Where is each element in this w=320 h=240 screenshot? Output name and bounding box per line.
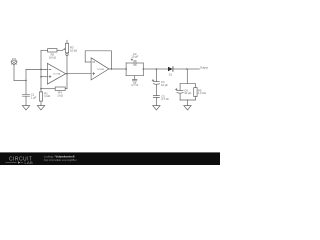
- input terminal IN1: [11, 57, 17, 65]
- capacitor C5: [153, 94, 169, 101]
- wire C4 column: [155, 69, 157, 82]
- capacitor C1: [23, 93, 37, 100]
- node output junction: [186, 68, 188, 70]
- wire output node down: [186, 69, 188, 84]
- wire C4 to C5: [155, 84, 157, 95]
- node buffer output: [111, 68, 113, 70]
- svg-text:TL072B: TL072B: [97, 69, 105, 71]
- ground (box2): [184, 106, 191, 110]
- diode D1: [168, 67, 173, 77]
- svg-text:IN1: IN1: [12, 57, 17, 61]
- node plus tap: [40, 76, 42, 78]
- wire C1 column: [25, 69, 27, 94]
- node box1 right: [143, 68, 145, 70]
- ground (R1): [37, 106, 44, 110]
- svg-text:1 kΩ: 1 kΩ: [44, 94, 50, 98]
- capacitor C6: [176, 84, 192, 100]
- capacitor C3: [131, 76, 139, 88]
- wire pot bottom to output node: [66, 56, 68, 74]
- resistor R2: [41, 49, 66, 60]
- wire to diode: [156, 68, 168, 70]
- svg-text:Output: Output: [200, 66, 208, 70]
- node C4 tap: [156, 68, 158, 70]
- node input/C1 junction: [25, 80, 27, 82]
- svg-text:http://circuitlab.com/c/g88ur: http://circuitlab.com/c/g88ur: [44, 158, 77, 162]
- wire op-amp1 output: [66, 73, 91, 75]
- node box1 left: [125, 68, 127, 70]
- svg-text:10 µF: 10 µF: [184, 91, 191, 95]
- svg-text:LAB: LAB: [25, 160, 33, 165]
- svg-text:10 µF: 10 µF: [131, 55, 138, 59]
- op-amp U2 TL072B: [91, 58, 109, 80]
- svg-text:1.2 kΩ: 1.2 kΩ: [198, 91, 206, 95]
- node output op-amp1: [66, 73, 68, 75]
- wire buffer minus stub: [85, 61, 91, 63]
- capacitor C2: [126, 52, 143, 66]
- svg-text:10 µF: 10 µF: [161, 83, 168, 87]
- op-amp U1 TL072A: [47, 63, 65, 84]
- wire to output terminal: [187, 68, 200, 70]
- resistor R4: [41, 87, 67, 97]
- wire box2 to ground: [187, 100, 189, 106]
- wire input line: [14, 79, 26, 81]
- wire main line box1 to C4 node: [143, 68, 156, 70]
- wire box1 right rail: [142, 63, 144, 76]
- wire box1 bottom branch: [126, 75, 143, 77]
- wire box2 bottom rail: [180, 99, 195, 101]
- wire box1 left rail: [125, 63, 127, 76]
- wire diode to output node: [173, 68, 187, 70]
- potentiometer R3: [66, 40, 78, 55]
- wire C5 to ground: [155, 97, 157, 105]
- wire R1 to ground: [40, 101, 42, 106]
- wire buffer output: [109, 68, 126, 70]
- wire feedback column: [40, 50, 42, 88]
- node R4/R1 junction: [40, 88, 42, 90]
- wire C1 to ground: [25, 96, 27, 105]
- wire R4 to output node: [66, 74, 68, 89]
- capacitor C4: [152, 80, 168, 87]
- node minus/column crossing: [40, 69, 42, 71]
- branding bar: [0, 152, 220, 165]
- svg-text:Ludwig / Volymkontroll: Ludwig / Volymkontroll: [44, 155, 75, 159]
- wire buffer feedback loop: [85, 51, 111, 69]
- svg-text:10 kΩ: 10 kΩ: [70, 48, 77, 52]
- wire box2 top rail: [180, 83, 195, 85]
- svg-text:1 µF: 1 µF: [31, 95, 37, 99]
- ground (C5): [153, 106, 160, 110]
- wire op-amp plus stub: [41, 76, 47, 78]
- svg-text:10 kΩ: 10 kΩ: [49, 55, 56, 59]
- ground (C1): [22, 106, 29, 110]
- svg-text:4.7 nF: 4.7 nF: [131, 84, 139, 87]
- wire terminal stem: [13, 65, 15, 81]
- svg-text:4.7 nF: 4.7 nF: [161, 97, 169, 101]
- svg-text:1 kΩ: 1 kΩ: [57, 93, 63, 97]
- logo lines + LAB: [6, 162, 17, 164]
- svg-text:TL072A: TL072A: [53, 73, 61, 76]
- resistor R1: [39, 89, 50, 101]
- resistor R5: [194, 84, 206, 100]
- wire op-amp minus line: [26, 68, 47, 70]
